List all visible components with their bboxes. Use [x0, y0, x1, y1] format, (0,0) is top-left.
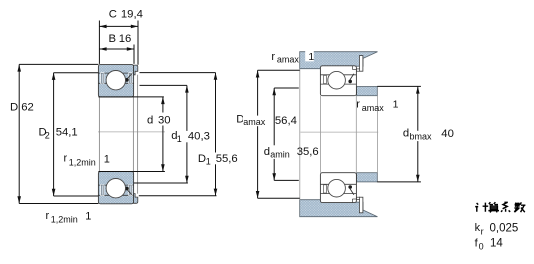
snap ring top [134, 65, 138, 75]
svg-text:1: 1 [206, 157, 211, 167]
svg-text:14: 14 [490, 238, 503, 250]
svg-text:amax: amax [243, 117, 266, 127]
svg-text:r: r [271, 51, 275, 63]
svg-text:0,025: 0,025 [490, 223, 519, 235]
shaft abutment spacer top [357, 87, 378, 96]
dimension Damax 56,4 [258, 70, 300, 198]
shield top-left [100, 72, 104, 84]
svg-text:1: 1 [308, 51, 314, 63]
svg-text:1: 1 [177, 134, 182, 144]
svg-text:0: 0 [479, 242, 484, 252]
计算系数 (drawn strokes) [475, 202, 525, 212]
bore line left [98, 97, 100, 172]
svg-text:54,1: 54,1 [56, 127, 78, 139]
dimension d1 40,3 [134, 85, 188, 183]
shield bottom-left [100, 184, 104, 196]
dimension dbmax 40 [377, 86, 421, 181]
svg-text:amax: amax [277, 55, 300, 65]
centerline right drawing [300, 131, 378, 133]
seal top-right [125, 72, 132, 84]
svg-text:40,3: 40,3 [188, 130, 210, 142]
snap ring in housing groove bottom [359, 197, 363, 213]
shaft abutment spacer bottom [357, 173, 378, 182]
svg-text:r: r [64, 153, 68, 165]
dimension D2 54,1 [54, 73, 99, 196]
svg-text:55,6: 55,6 [216, 153, 238, 165]
dimension d 30 [98, 97, 164, 172]
svg-text:1,2min: 1,2min [69, 158, 96, 168]
svg-text:30: 30 [158, 115, 171, 127]
svg-text:1,2min: 1,2min [51, 215, 78, 225]
svg-text:C: C [109, 8, 117, 20]
svg-text:1: 1 [104, 154, 110, 166]
svg-text:amax: amax [362, 103, 385, 113]
svg-text:1: 1 [85, 210, 91, 222]
snap ring in housing groove top [359, 56, 363, 72]
dimension D 62 [19, 64, 98, 203]
svg-text:56,4: 56,4 [275, 115, 297, 127]
svg-text:d: d [403, 127, 409, 139]
svg-text:D: D [10, 101, 18, 113]
bearing section bottom (right drawing) [320, 173, 356, 203]
svg-text:16: 16 [119, 33, 132, 45]
svg-text:amin: amin [270, 150, 290, 160]
housing top [300, 52, 378, 69]
outer+inner ring section top [98, 65, 133, 97]
svg-text:r: r [46, 210, 50, 222]
svg-text:B: B [109, 33, 117, 45]
ball bottom [106, 179, 125, 198]
svg-text:bmax: bmax [410, 132, 433, 142]
svg-text:62: 62 [21, 101, 34, 113]
snap ring side line [137, 75, 139, 194]
svg-text:19,4: 19,4 [121, 8, 143, 20]
housing face line [299, 69, 301, 200]
spacer face line [377, 96, 379, 173]
ball top [106, 71, 125, 90]
dimension damin 35,6 [274, 88, 299, 180]
centerline axis [98, 131, 165, 133]
bearing face line left [320, 96, 322, 173]
outer+inner ring section bottom [98, 172, 133, 204]
seal bottom-right [125, 184, 132, 196]
svg-text:r: r [481, 226, 484, 236]
svg-text:1: 1 [393, 99, 399, 111]
housing bottom [300, 200, 378, 217]
svg-text:40: 40 [441, 128, 454, 140]
dimension C 19,4 [99, 21, 138, 65]
snap ring bottom [134, 194, 138, 204]
svg-text:d: d [147, 114, 153, 126]
bearing section top (right drawing) [320, 66, 356, 96]
dimension D1 55,6 [139, 73, 217, 196]
dimension B 16 [99, 45, 134, 64]
svg-text:r: r [356, 99, 360, 111]
svg-text:35,6: 35,6 [297, 146, 319, 158]
svg-text:2: 2 [45, 131, 50, 141]
svg-text:d: d [264, 146, 270, 158]
bore line right [132, 97, 134, 172]
bearing face line right [355, 96, 357, 173]
